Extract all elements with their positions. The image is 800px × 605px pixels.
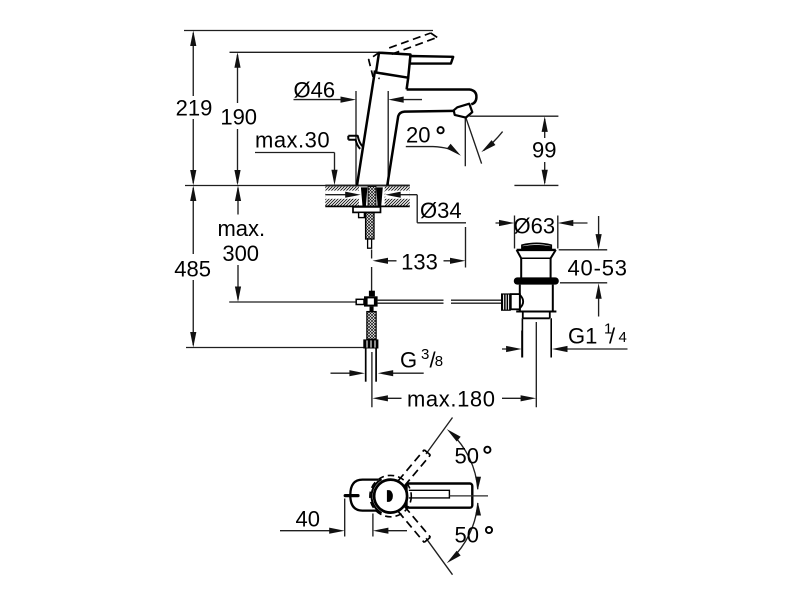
svg-text:G: G: [400, 347, 417, 372]
svg-text:20: 20: [406, 122, 430, 147]
svg-text:Ø34: Ø34: [420, 198, 462, 223]
svg-text:4: 4: [619, 329, 627, 346]
svg-text:Ø63: Ø63: [514, 214, 556, 239]
svg-text:190: 190: [220, 105, 257, 130]
svg-text:219: 219: [176, 95, 213, 120]
svg-text:max.180: max.180: [407, 386, 496, 411]
svg-text:G1: G1: [568, 323, 597, 348]
svg-text:99: 99: [532, 138, 556, 163]
svg-text:485: 485: [174, 256, 211, 281]
svg-text:8: 8: [435, 353, 443, 370]
svg-text:133: 133: [401, 250, 438, 275]
svg-text:300: 300: [222, 241, 259, 266]
svg-text:50: 50: [455, 443, 479, 468]
svg-text:max.30: max.30: [255, 127, 330, 152]
svg-text:/: /: [609, 323, 616, 348]
svg-text:Ø46: Ø46: [294, 77, 336, 102]
svg-text:3: 3: [421, 346, 429, 363]
svg-text:40-53: 40-53: [568, 256, 628, 281]
svg-text:max.: max.: [217, 216, 265, 241]
svg-text:50: 50: [455, 522, 479, 547]
svg-text:40: 40: [296, 507, 320, 532]
